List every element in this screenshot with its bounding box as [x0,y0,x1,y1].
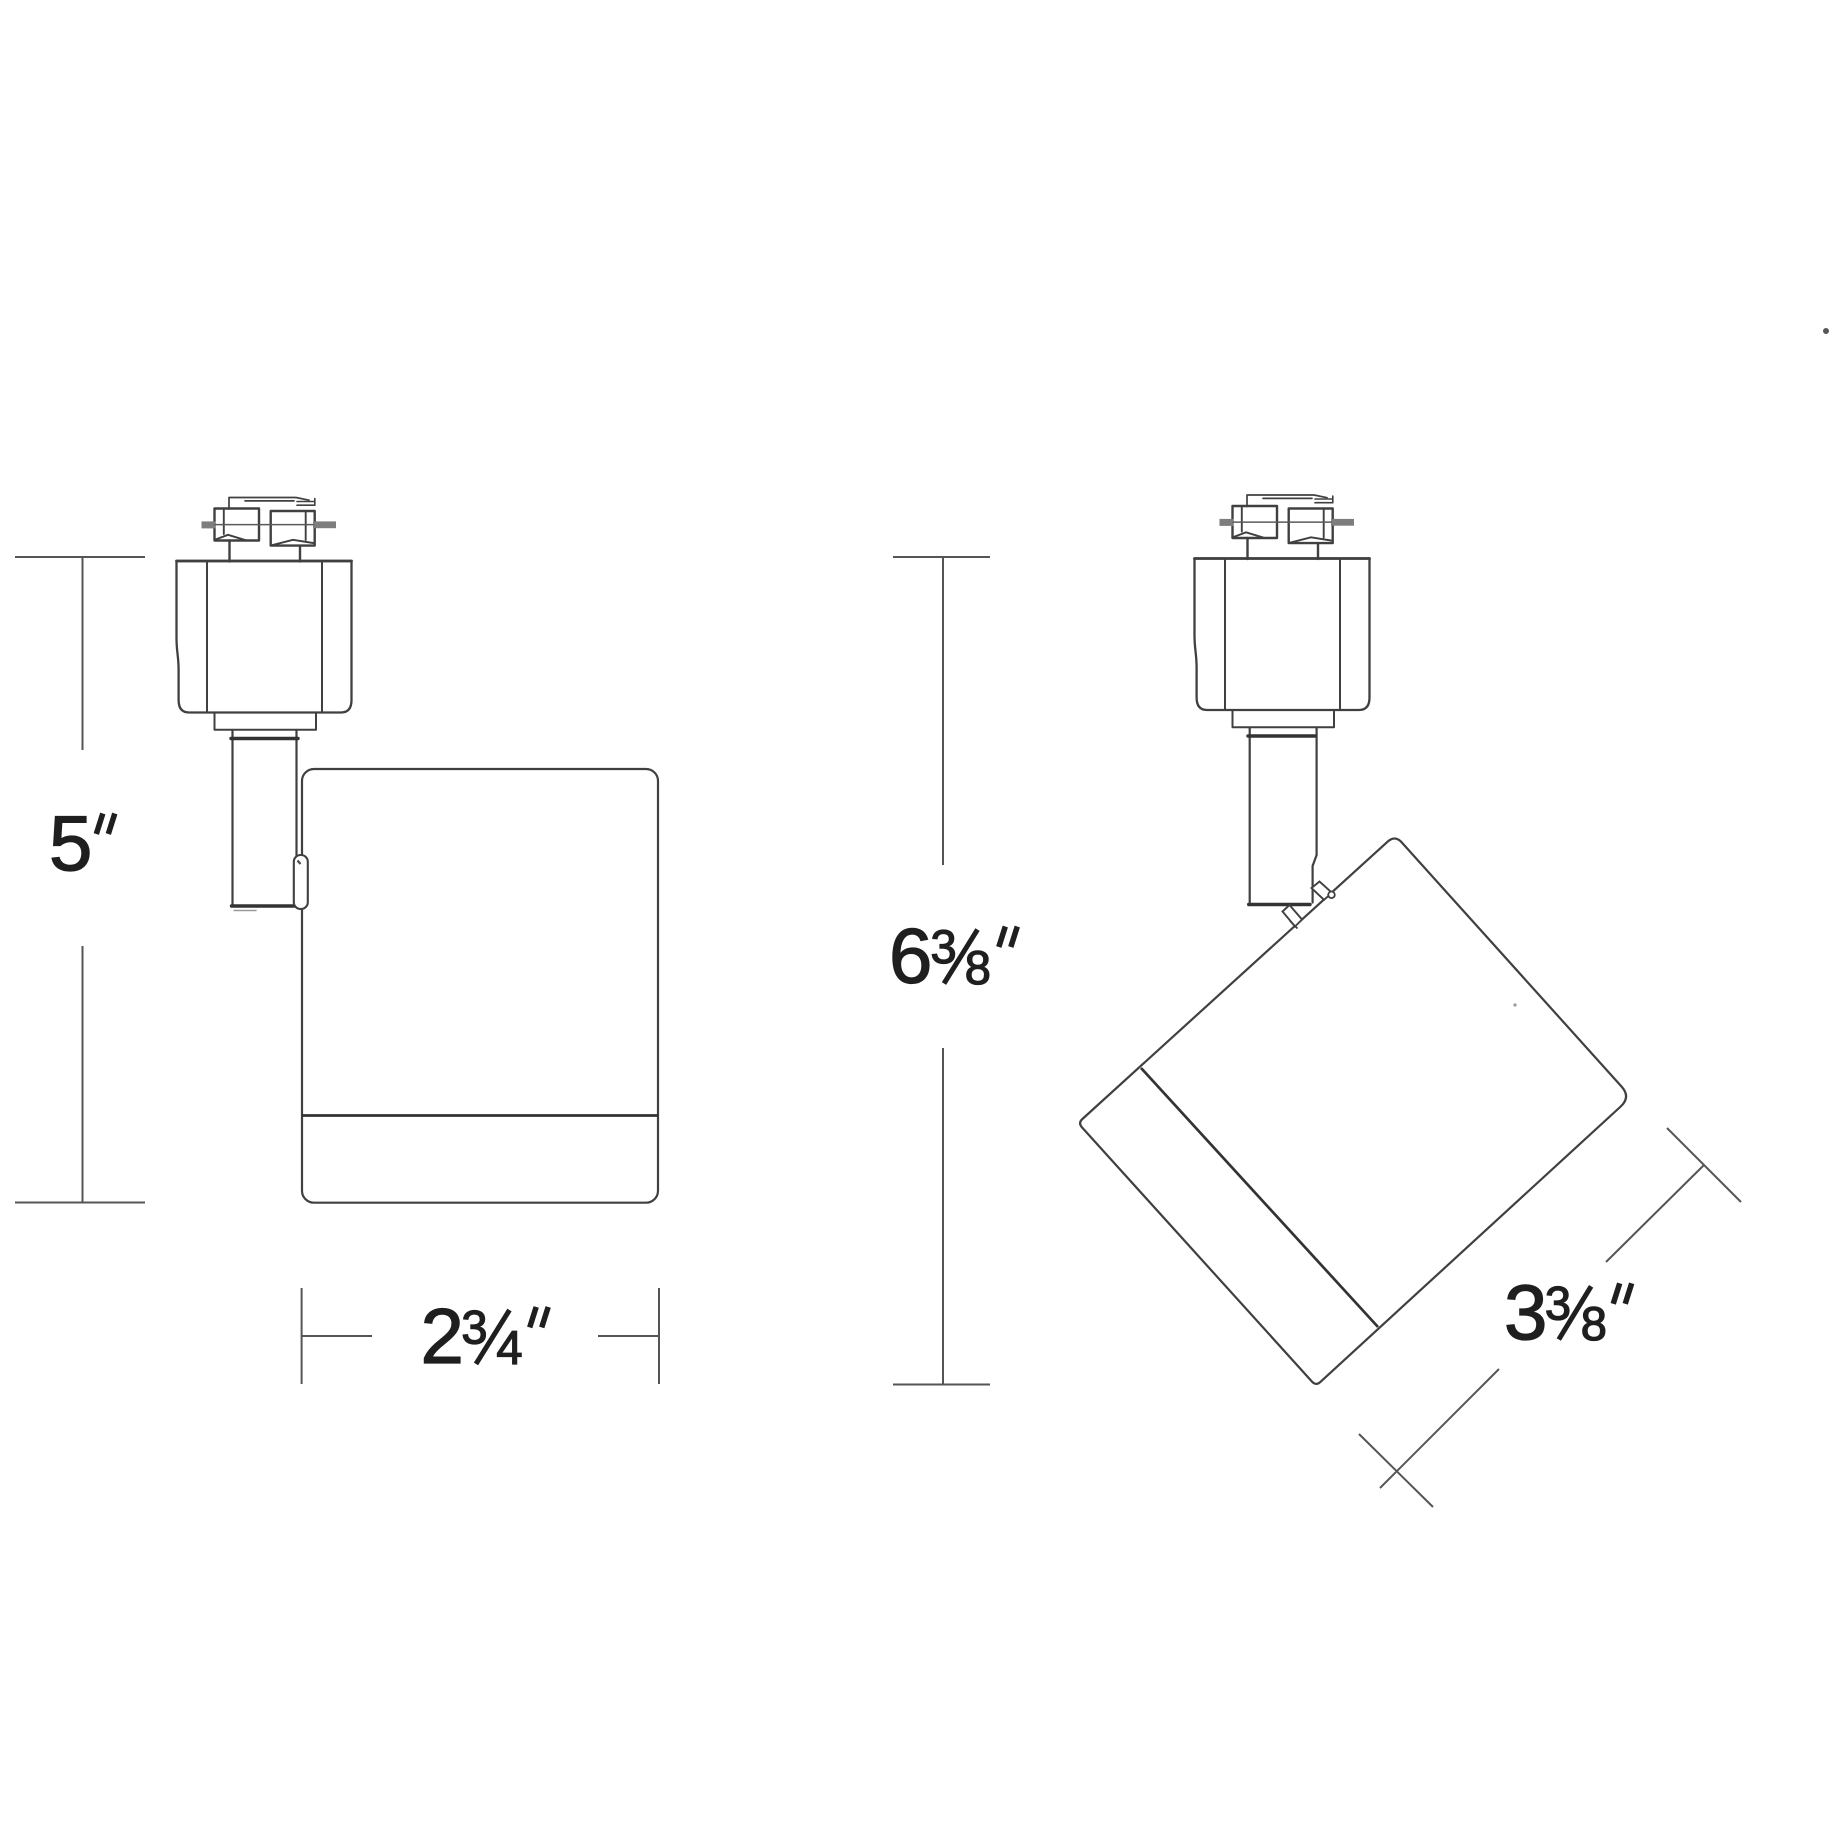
dimension 2-3/4 inch: line segments [302,1335,659,1337]
dimension 6-3/8 inch: top tick [893,556,990,558]
lamp head housing tilted (right view) [1080,839,1626,1384]
inch marks for 2-3/4 [530,1307,549,1328]
inch marks for 5 [96,814,115,835]
dimension 5 inch: vertical line [82,557,84,1203]
dimension 3-3/8 inch: upper tick [1667,1128,1741,1202]
track adapter assembly (left view) [177,498,352,730]
fraction slash [476,1310,510,1364]
scan speck upper right [1823,328,1829,334]
lamp head housing (left view) [302,769,658,1203]
trim ring line tilted (right view) [1141,1068,1378,1327]
svg-text:5: 5 [49,799,92,887]
dimension 3-3/8 inch: line segments [1380,1165,1704,1488]
svg-text:4: 4 [496,1321,522,1374]
dimension 3-3/8 inch: lower tick [1359,1434,1433,1507]
trim ring line (left view) [302,1114,658,1117]
dimension 2-3/4 inch: left tick [301,1288,303,1384]
svg-text:6: 6 [889,912,932,1000]
dimension 6-3/8 inch: vertical line [942,557,944,1385]
fraction slash [944,930,978,984]
dimension 5 inch: bottom tick [15,1202,145,1204]
svg-text:3: 3 [1504,1268,1547,1356]
stem (left view) [231,730,298,911]
svg-text:2: 2 [421,1292,464,1380]
upper hinge bracket (right view) [1312,882,1333,900]
dimension 6-3/8 inch: bottom tick [893,1384,990,1386]
inch marks for 3-3/8 [1613,1283,1632,1304]
dimension 5 inch: top tick [15,556,145,558]
lower hinge bracket (right view) [1283,905,1303,927]
scan speck near head [1513,1003,1516,1006]
dimension 2-3/4 inch: right tick [658,1288,660,1384]
svg-text:3: 3 [461,1300,487,1353]
hinge pivot nub [1328,892,1335,899]
swivel hinge pill (left view) [294,855,308,909]
svg-text:8: 8 [965,941,991,994]
svg-text:8: 8 [1581,1297,1607,1350]
inch marks for 6-3/8 [999,927,1018,948]
fraction slash [1559,1286,1591,1339]
track adapter assembly (right view) [1195,495,1370,727]
stem (right view) [1248,728,1317,905]
